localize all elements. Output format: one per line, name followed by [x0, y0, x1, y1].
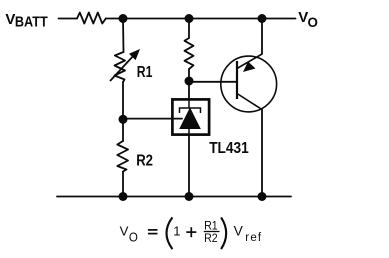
wire: top rail to VO — [106, 18, 296, 20]
transistor Q1 collector line — [237, 94, 262, 110]
wire: R2 top lead — [122, 119, 124, 141]
wire: bias resistor top lead — [188, 19, 190, 39]
variable resistor R1 arrowhead — [129, 49, 140, 60]
node: ground / TL431 anode junction — [185, 192, 194, 201]
transistor Q1 base bar — [236, 61, 238, 99]
node: ground / Q1 collector junction — [258, 192, 267, 201]
wire: bias resistor bottom to base node — [188, 69, 190, 81]
svg-text:R2: R2 — [204, 233, 218, 245]
wire: base node to Q1 base — [189, 81, 237, 83]
wire: R2 bottom lead — [122, 172, 124, 197]
node: rail / R1 junction — [119, 14, 128, 23]
svg-text:R1: R1 — [137, 64, 153, 81]
resistor (bias, cathode pull-up) — [185, 38, 194, 69]
wire: TL431 cathode lead — [188, 81, 190, 99]
svg-text:BATT: BATT — [15, 14, 48, 31]
node: ground / R2 junction — [119, 192, 128, 201]
svg-text:R1: R1 — [204, 221, 218, 233]
TL431 anode triangle — [180, 109, 200, 129]
svg-text:V: V — [120, 224, 129, 239]
wire: R1 bottom lead to divider node — [122, 82, 124, 119]
svg-text:O: O — [129, 230, 138, 244]
wire: R1 top lead — [122, 19, 125, 53]
variable resistor R1 arrow shaft — [111, 57, 133, 81]
node: feedback divider junction — [119, 115, 128, 124]
transistor Q1 emitter line — [237, 54, 262, 69]
transistor Q1 (PNP) circle — [221, 56, 277, 112]
resistor (series input resistor) — [77, 13, 106, 24]
wire: TL431 anode lead — [188, 135, 190, 197]
node: rail / bias resistor junction — [185, 14, 194, 23]
svg-text:V: V — [234, 224, 244, 239]
transistor Q1 emitter arrow (PNP) — [243, 62, 256, 73]
wire: VBATT to series resistor — [59, 18, 78, 20]
wire: Q1 emitter to top rail — [261, 19, 263, 55]
formula VO = (1 + R1/R2) Vref — [120, 217, 263, 249]
TL431 U1 box — [172, 99, 209, 134]
TL431 internal symbol: reference bar — [180, 108, 201, 113]
node: Q1 base / TL431 cathode junction — [185, 77, 194, 86]
resistor R2 (zigzag) — [117, 141, 128, 172]
node: rail / Q1 emitter junction — [258, 14, 267, 23]
svg-text:ref: ref — [245, 232, 262, 244]
svg-text:O: O — [308, 14, 319, 30]
TL431 internal symbol: anode lead — [188, 129, 190, 135]
svg-text:1: 1 — [173, 224, 180, 239]
variable resistor R1 (zigzag) — [115, 52, 126, 82]
wire: Q1 collector to ground rail — [261, 110, 263, 197]
svg-text:R2: R2 — [136, 153, 153, 170]
TL431 internal symbol: cathode lead — [180, 99, 201, 135]
svg-text:TL431: TL431 — [209, 140, 249, 157]
ground rail (bottom) — [57, 196, 291, 198]
wire: divider node to TL431 reference — [123, 118, 182, 120]
